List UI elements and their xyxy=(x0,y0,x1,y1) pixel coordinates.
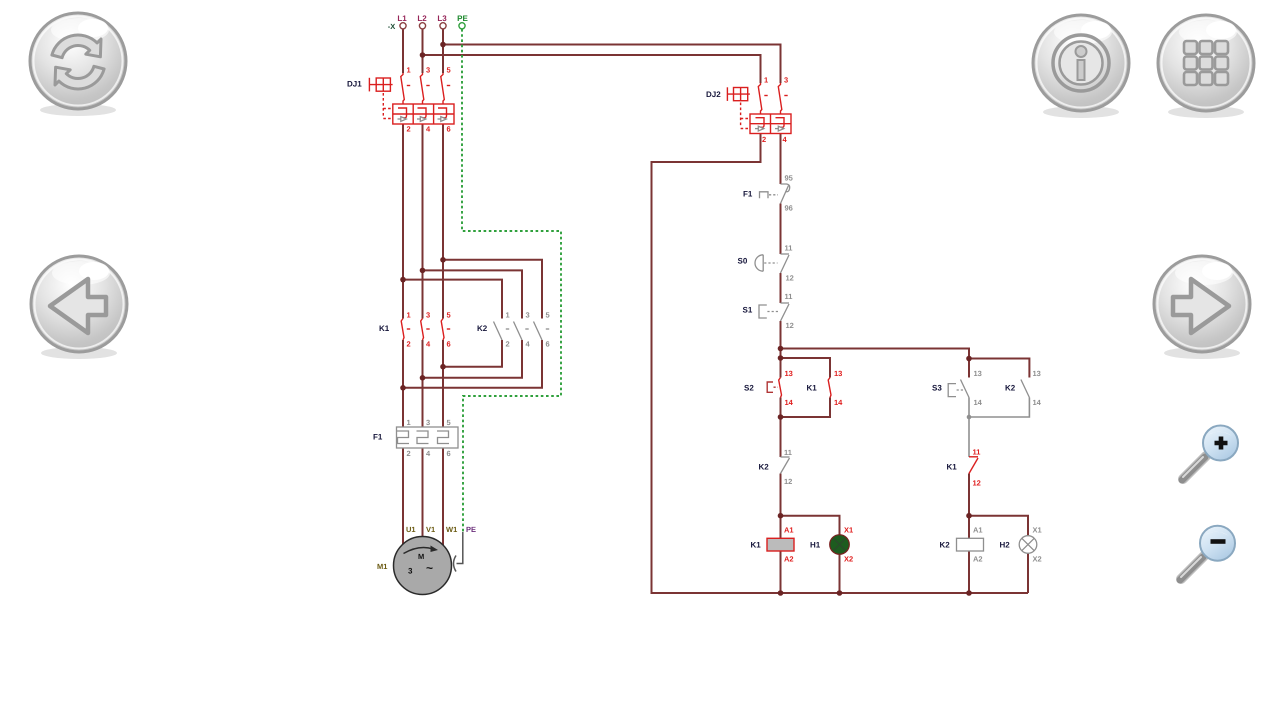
svg-text:12: 12 xyxy=(786,274,794,283)
svg-text:1: 1 xyxy=(407,66,411,75)
svg-text:DJ1: DJ1 xyxy=(347,80,362,89)
svg-text:M: M xyxy=(418,552,424,561)
svg-text:3: 3 xyxy=(426,311,430,320)
svg-text:K2: K2 xyxy=(477,324,488,333)
svg-text:A1: A1 xyxy=(784,526,794,535)
svg-text:3: 3 xyxy=(426,66,430,75)
svg-text:12: 12 xyxy=(973,479,981,488)
svg-text:14: 14 xyxy=(1033,398,1042,407)
svg-text:4: 4 xyxy=(426,340,431,349)
svg-text:5: 5 xyxy=(546,311,550,320)
svg-text:11: 11 xyxy=(784,448,792,457)
svg-text:5: 5 xyxy=(447,66,451,75)
svg-text:K1: K1 xyxy=(807,384,818,393)
svg-text:3: 3 xyxy=(526,311,530,320)
svg-text:A1: A1 xyxy=(973,526,983,535)
svg-text:K2: K2 xyxy=(1005,384,1016,393)
svg-text:14: 14 xyxy=(834,398,843,407)
svg-text:2: 2 xyxy=(407,340,411,349)
svg-text:K2: K2 xyxy=(759,463,770,472)
svg-text:14: 14 xyxy=(785,398,794,407)
svg-text:X1: X1 xyxy=(844,526,853,535)
svg-text:11: 11 xyxy=(785,292,793,301)
svg-text:3: 3 xyxy=(426,418,430,427)
svg-text:4: 4 xyxy=(426,125,431,134)
svg-text:12: 12 xyxy=(784,477,792,486)
svg-text:2: 2 xyxy=(506,340,510,349)
svg-text:A2: A2 xyxy=(973,555,983,564)
svg-text:V1: V1 xyxy=(426,525,435,534)
svg-text:X1: X1 xyxy=(1033,526,1042,535)
svg-text:X2: X2 xyxy=(1033,555,1042,564)
svg-text:F1: F1 xyxy=(373,433,383,442)
svg-text:11: 11 xyxy=(973,448,981,457)
svg-text:S0: S0 xyxy=(738,257,748,266)
svg-text:U1: U1 xyxy=(406,525,416,534)
svg-text:95: 95 xyxy=(785,174,793,183)
svg-text:S3: S3 xyxy=(932,384,942,393)
svg-text:H2: H2 xyxy=(1000,541,1011,550)
svg-text:~: ~ xyxy=(426,561,433,575)
svg-text:DJ2: DJ2 xyxy=(706,90,721,99)
svg-text:6: 6 xyxy=(447,125,451,134)
svg-text:1: 1 xyxy=(506,311,510,320)
svg-text:96: 96 xyxy=(785,204,793,213)
svg-text:2: 2 xyxy=(407,125,411,134)
svg-text:2: 2 xyxy=(407,449,411,458)
svg-text:L1: L1 xyxy=(397,14,407,23)
svg-text:6: 6 xyxy=(447,340,451,349)
svg-text:5: 5 xyxy=(447,311,451,320)
svg-text:3: 3 xyxy=(784,76,788,85)
svg-text:K1: K1 xyxy=(947,463,958,472)
svg-text:X2: X2 xyxy=(844,555,853,564)
svg-text:PE: PE xyxy=(466,525,476,534)
svg-text:S2: S2 xyxy=(744,384,754,393)
svg-text:12: 12 xyxy=(786,321,794,330)
svg-text:A2: A2 xyxy=(784,555,794,564)
svg-text:13: 13 xyxy=(1033,369,1041,378)
svg-text:4: 4 xyxy=(526,340,531,349)
svg-text:1: 1 xyxy=(407,418,411,427)
svg-text:W1: W1 xyxy=(446,525,457,534)
svg-text:5: 5 xyxy=(447,418,451,427)
svg-text:H1: H1 xyxy=(810,541,821,550)
svg-text:2: 2 xyxy=(762,135,766,144)
svg-text:13: 13 xyxy=(974,369,982,378)
svg-text:6: 6 xyxy=(546,340,550,349)
svg-text:13: 13 xyxy=(834,369,842,378)
svg-text:K2: K2 xyxy=(940,541,951,550)
svg-text:11: 11 xyxy=(785,244,793,253)
svg-text:L2: L2 xyxy=(417,14,427,23)
svg-text:-X: -X xyxy=(388,22,396,31)
svg-text:PE: PE xyxy=(457,14,468,23)
svg-text:K1: K1 xyxy=(751,541,762,550)
svg-text:6: 6 xyxy=(447,449,451,458)
svg-text:S1: S1 xyxy=(743,306,753,315)
svg-text:1: 1 xyxy=(764,76,768,85)
svg-text:1: 1 xyxy=(407,311,411,320)
svg-text:3: 3 xyxy=(408,567,413,576)
svg-text:13: 13 xyxy=(785,369,793,378)
svg-text:M1: M1 xyxy=(377,562,387,571)
svg-text:L3: L3 xyxy=(437,14,447,23)
svg-text:K1: K1 xyxy=(379,324,390,333)
svg-text:F1: F1 xyxy=(743,190,753,199)
svg-text:4: 4 xyxy=(783,135,788,144)
svg-text:4: 4 xyxy=(426,449,431,458)
svg-text:14: 14 xyxy=(974,398,983,407)
